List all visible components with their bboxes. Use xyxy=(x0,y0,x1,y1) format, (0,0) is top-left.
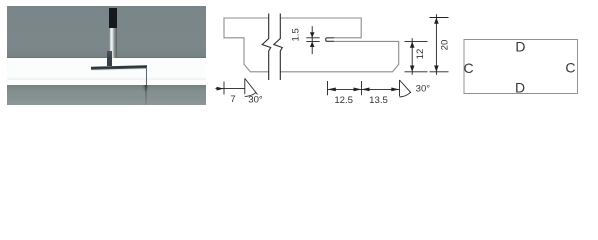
photo bottom panel band xyxy=(7,85,207,106)
bracket underside shadow xyxy=(92,67,144,70)
profile left piece xyxy=(224,18,269,72)
svg-text:7: 7 xyxy=(230,94,235,105)
right 30deg arc xyxy=(400,92,411,97)
hanger bracket bar xyxy=(90,65,146,69)
hanger rod xyxy=(109,26,117,58)
break line 1 xyxy=(262,14,271,81)
joint wedge shadow xyxy=(142,85,149,92)
dimension ticks 12.5/13.5 xyxy=(328,81,362,95)
dimension 20 ticks xyxy=(430,18,449,72)
dimension 12 arrows xyxy=(410,41,415,71)
dimension 12 ticks xyxy=(405,41,428,71)
photo white panel band xyxy=(7,58,207,85)
svg-text:12.5: 12.5 xyxy=(334,95,353,106)
profile right piece xyxy=(280,18,398,72)
break line 2 xyxy=(274,14,283,81)
left 30deg arc xyxy=(245,93,256,97)
photo: suspended ceiling panel with hanger xyxy=(7,6,207,106)
dimension 1.5 line xyxy=(311,26,313,54)
edge diagram rectangle xyxy=(464,40,578,94)
dimension arrows 12.5/13.5 xyxy=(328,88,400,92)
svg-text:12: 12 xyxy=(415,49,426,60)
svg-text:C: C xyxy=(565,60,575,76)
dimension 20 line xyxy=(435,14,437,75)
svg-text:13.5: 13.5 xyxy=(369,95,388,106)
dimension 1.5 arrows xyxy=(310,32,315,47)
left 30deg chamfer symbol xyxy=(245,78,258,94)
svg-text:30°: 30° xyxy=(248,94,263,105)
panel joint line in bottom band xyxy=(145,85,147,106)
svg-text:30°: 30° xyxy=(416,84,431,95)
bracket drop line xyxy=(146,67,147,85)
photo ceiling top band xyxy=(7,6,207,58)
dimension 7 arrow xyxy=(217,87,225,91)
dimension 20 arrows xyxy=(434,18,439,72)
svg-text:20: 20 xyxy=(440,40,451,51)
slot closed end (dark) xyxy=(326,38,334,42)
photo panel edge shadow line xyxy=(7,57,207,58)
hanger black cap xyxy=(109,8,117,28)
right 30deg chamfer symbol xyxy=(400,80,412,96)
svg-text:1.5: 1.5 xyxy=(290,28,301,41)
dimension 12.5/13.5 line xyxy=(328,88,400,90)
svg-text:D: D xyxy=(515,38,525,54)
dimension 7 line xyxy=(216,88,246,90)
dimension 1.5 ticks xyxy=(306,38,319,42)
hanger rod lower dark part xyxy=(107,51,113,66)
dimension 12 line xyxy=(411,38,413,75)
svg-text:C: C xyxy=(463,60,473,76)
dimension 7 tick xyxy=(223,82,225,95)
photo faint joint streak xyxy=(7,78,207,81)
svg-text:D: D xyxy=(515,80,525,96)
